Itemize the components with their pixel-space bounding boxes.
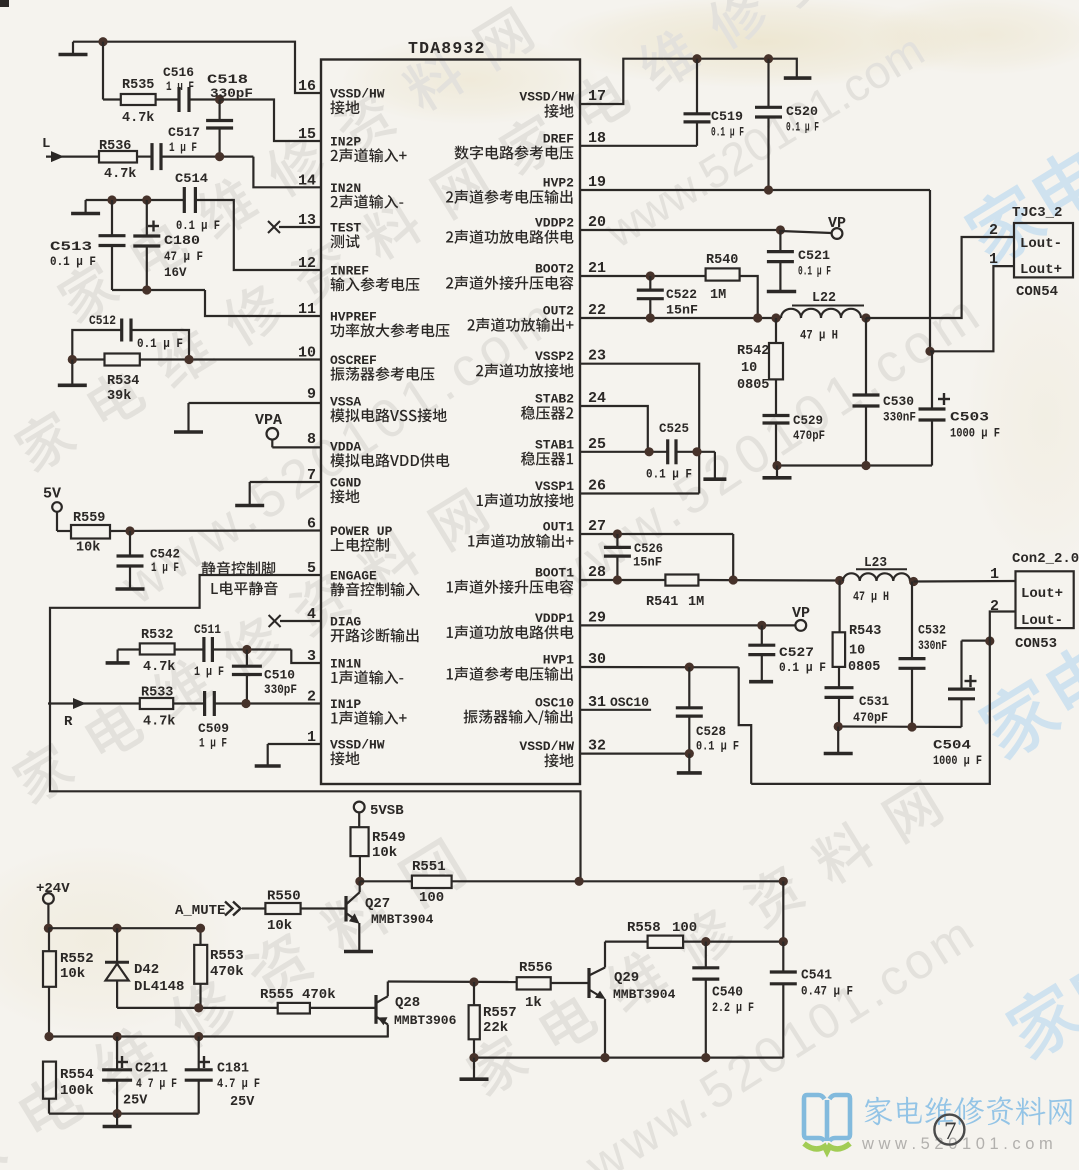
svg-text:25V: 25V: [230, 1095, 255, 1110]
svg-text:16V: 16V: [164, 266, 187, 280]
svg-text:1k: 1k: [525, 995, 542, 1011]
svg-text:HVPREF: HVPREF: [330, 310, 377, 325]
svg-text:C509: C509: [198, 721, 229, 736]
pin 14 (IN2N): [298, 172, 403, 208]
connector CON54: [989, 205, 1073, 300]
svg-text:C511: C511: [194, 622, 221, 637]
svg-text:VSSD/HW: VSSD/HW: [519, 739, 574, 754]
svg-text:15nF: 15nF: [633, 556, 662, 570]
svg-text:10: 10: [741, 361, 757, 376]
inductor L23: [843, 556, 910, 604]
wire net VSSD top-left to pin16: [73, 37, 321, 93]
pin4 DIAG no-connect X: [269, 615, 321, 627]
wire input cap to pin14: [161, 152, 321, 187]
svg-text:0805: 0805: [848, 660, 880, 675]
capacitor C519: [684, 59, 745, 146]
svg-text:47 μ H: 47 μ H: [800, 329, 838, 343]
svg-text:C512: C512: [89, 313, 116, 328]
pin 23 (VSSP2): [476, 348, 606, 378]
svg-text:2: 2: [989, 222, 998, 239]
ground C525: [703, 452, 726, 479]
pin 9 (VSSA): [307, 386, 447, 422]
svg-text:4.7k: 4.7k: [143, 660, 175, 675]
pin 32 (VSSD/HW): [519, 738, 606, 768]
capacitor C514: [175, 171, 220, 233]
svg-text:C522: C522: [666, 287, 697, 302]
svg-text:0.1 μ F: 0.1 μ F: [798, 265, 831, 279]
wire bottom of C513/C180 to pin11: [112, 285, 321, 316]
svg-text:C541: C541: [801, 969, 832, 984]
svg-text:L23: L23: [864, 556, 887, 571]
wire C509 to pin2: [214, 699, 321, 708]
pin 22 (OUT2): [467, 302, 606, 332]
capacitor C531: [825, 688, 890, 727]
svg-text:10k: 10k: [267, 918, 292, 934]
svg-text:10k: 10k: [76, 541, 100, 556]
svg-text:R558: R558: [627, 920, 661, 936]
svg-text:STAB2: STAB2: [535, 392, 574, 407]
svg-text:C527: C527: [779, 645, 814, 660]
svg-text:C526: C526: [634, 541, 663, 556]
svg-text:4 7 μ F: 4 7 μ F: [136, 1077, 177, 1091]
ground mid-left: [71, 200, 100, 214]
pin 11 (HVPREF): [298, 301, 449, 337]
svg-text:C513: C513: [50, 239, 92, 254]
pin 12 (INREF): [298, 255, 419, 291]
capacitor C527: [748, 625, 826, 680]
svg-text:15nF: 15nF: [666, 304, 698, 318]
wire C525 to ground: [676, 447, 715, 456]
resistor R558: [627, 920, 697, 948]
wire ground rail channel1: [834, 722, 962, 732]
svg-text:C504: C504: [933, 738, 971, 753]
pin 5 (ENGAGE): [307, 560, 420, 596]
svg-text:R540: R540: [706, 253, 738, 268]
resistor R534: [68, 354, 321, 405]
svg-text:100: 100: [419, 890, 444, 906]
svg-text:330pF: 330pF: [264, 683, 297, 697]
resistor R536: [99, 139, 137, 182]
capacitor C511: [194, 622, 224, 679]
svg-text:R542: R542: [737, 344, 769, 359]
svg-text:R553: R553: [210, 948, 244, 964]
svg-text:OUT2: OUT2: [543, 304, 574, 319]
svg-text:DL4148: DL4148: [134, 979, 184, 995]
svg-text:100: 100: [672, 920, 697, 936]
svg-text:R552: R552: [60, 951, 94, 967]
svg-text:1: 1: [990, 566, 999, 583]
svg-text:D42: D42: [134, 962, 159, 978]
svg-text:IN2P: IN2P: [330, 135, 361, 150]
svg-text:0.1 μ F: 0.1 μ F: [696, 740, 739, 754]
svg-text:C530: C530: [883, 394, 914, 409]
wire net STAB1 pin25: [580, 447, 668, 456]
svg-text:1 μ F: 1 μ F: [169, 141, 197, 155]
pin 15 (IN2P): [298, 126, 407, 162]
svg-text:C532: C532: [918, 623, 946, 638]
svg-text:C180: C180: [164, 233, 200, 248]
wire R558 to C541: [683, 937, 788, 946]
capacitor C211 electrolytic: [102, 1037, 177, 1114]
svg-text:1: 1: [989, 251, 998, 268]
svg-text:C516: C516: [163, 65, 194, 80]
capacitor C512: [72, 313, 189, 360]
svg-text:0.1 μ F: 0.1 μ F: [711, 126, 744, 140]
svg-text:R536: R536: [99, 139, 131, 154]
svg-text:L22: L22: [812, 291, 836, 306]
capacitor C532: [899, 582, 948, 728]
pin 27 (OUT1): [468, 518, 606, 548]
wire net OUT1: [580, 529, 733, 580]
pin 20 (VDDP2): [446, 214, 606, 244]
resistor R553: [194, 924, 243, 1008]
svg-text:27: 27: [588, 518, 606, 535]
capacitor series after R536: [152, 143, 161, 170]
wire Q28 emitter to R556/R557 node: [388, 977, 517, 986]
capacitor C542: [117, 531, 181, 577]
input terminal R: [48, 698, 140, 730]
pin 1 (VSSD/HW): [307, 729, 385, 765]
wire net D42/R553/R555: [117, 1003, 278, 1012]
svg-text:Lout-: Lout-: [1021, 613, 1063, 629]
svg-text:C542: C542: [150, 547, 180, 562]
input terminal L: [42, 136, 99, 162]
svg-text:0.1 μ F: 0.1 μ F: [646, 468, 692, 482]
svg-text:L: L: [42, 136, 50, 152]
wire net INREF top: [86, 195, 185, 204]
svg-text:A_MUTE: A_MUTE: [175, 903, 225, 919]
capacitor C529: [763, 413, 826, 466]
transistor Q27 MMBT3904: [346, 881, 434, 951]
svg-text:R554: R554: [60, 1067, 94, 1083]
pin 6 (POWER UP): [307, 516, 393, 552]
ground bottom-left: [103, 1114, 132, 1127]
capacitor C517: [168, 100, 233, 157]
terminal VP channel1: [792, 605, 810, 631]
svg-text:0.1 μ F: 0.1 μ F: [786, 121, 819, 135]
svg-text:C528: C528: [696, 724, 726, 739]
svg-text:4.7 μ F: 4.7 μ F: [217, 1077, 260, 1091]
svg-text:1M: 1M: [688, 595, 704, 610]
svg-text:2: 2: [990, 598, 999, 615]
wire R541 to L23: [698, 575, 844, 585]
svg-text:MMBT3906: MMBT3906: [394, 1013, 457, 1028]
svg-text:Lout-: Lout-: [1020, 236, 1062, 252]
svg-text:470pF: 470pF: [793, 429, 825, 443]
svg-text:1 μ F: 1 μ F: [199, 737, 227, 751]
capacitor C518 label: [207, 72, 253, 101]
wire R558 left: [605, 940, 648, 942]
capacitor C528: [676, 667, 739, 754]
wire net VSSP2 pin23: [580, 364, 699, 494]
capacitor C521: [767, 230, 831, 290]
pin13 TEST no-connect X: [268, 221, 321, 233]
resistor R549: [351, 813, 406, 862]
capacitor C540: [692, 942, 754, 1058]
wire bottom rail Q29 area: [469, 1053, 783, 1062]
capacitor C509: [198, 691, 229, 751]
capacitor C503 electrolytic: [919, 351, 1001, 465]
svg-text:17: 17: [588, 88, 606, 105]
wire net HVP2: [580, 185, 1014, 356]
svg-text:0.1 μ F: 0.1 μ F: [176, 219, 220, 233]
pin 31 (OSC10): [464, 694, 606, 725]
transistor Q29 MMBT3904: [589, 942, 676, 1058]
pin 7 (CGND): [307, 467, 361, 503]
svg-text:INREF: INREF: [330, 264, 369, 279]
ground under R534: [58, 360, 87, 386]
svg-text:0.1 μ F: 0.1 μ F: [50, 255, 96, 269]
wire net STAB2 pin24: [580, 406, 648, 452]
capacitor C522: [637, 276, 698, 318]
wire R532 to C511: [175, 648, 204, 650]
wire net OUT2: [580, 313, 781, 322]
svg-text:20: 20: [588, 214, 606, 231]
svg-text:TEST: TEST: [330, 221, 361, 236]
svg-text:C521: C521: [798, 248, 830, 263]
pin 13 (TEST): [298, 212, 361, 248]
terminal VP channel2: [828, 215, 846, 239]
svg-text:HVP1: HVP1: [543, 653, 574, 668]
svg-text:R535: R535: [122, 78, 154, 93]
label mute net: [202, 561, 278, 595]
pin 17 (VSSD/HW): [519, 88, 606, 118]
svg-text:32: 32: [588, 738, 606, 755]
svg-text:10: 10: [849, 644, 865, 659]
capacitor C180 electrolytic: [133, 200, 203, 290]
svg-text:R534: R534: [107, 374, 139, 389]
IC U1 TDA8932 body: [321, 60, 580, 785]
capacitor C520: [755, 59, 819, 190]
terminal 5V: [43, 486, 62, 512]
pin 8 (VDDA): [307, 431, 449, 467]
svg-text:C520: C520: [786, 104, 818, 119]
svg-text:POWER UP: POWER UP: [330, 524, 393, 539]
wire C519 to pin18: [580, 145, 697, 147]
svg-text:R549: R549: [372, 830, 406, 846]
wire node A to pin15: [220, 100, 321, 142]
pin 21 (BOOT2): [446, 260, 606, 290]
svg-text:VDDA: VDDA: [330, 440, 361, 455]
svg-text:1M: 1M: [710, 288, 726, 303]
wire R555 to Q28 base: [310, 1007, 375, 1009]
svg-text:R559: R559: [73, 511, 105, 526]
wire net VSSD pin32: [580, 749, 694, 758]
capacitor C525: [646, 421, 692, 482]
wire pin7 CGND: [250, 481, 321, 483]
svg-text:8: 8: [307, 431, 316, 448]
svg-text:0.1 μ F: 0.1 μ F: [779, 661, 826, 675]
inductor L22: [781, 291, 864, 343]
resistor R540: [706, 253, 740, 303]
svg-text:Lout+: Lout+: [1020, 262, 1062, 278]
pin 24 (STAB2): [521, 390, 606, 420]
input A_MUTE: [175, 902, 265, 920]
resistor R552: [43, 928, 94, 1036]
pin 18 (DREF): [454, 130, 606, 160]
svg-text:R555 470k: R555 470k: [260, 987, 336, 1003]
svg-text:R556: R556: [519, 960, 553, 976]
capacitor C526: [604, 534, 663, 580]
resistor R557: [469, 982, 517, 1058]
capacitor C510: [232, 650, 297, 704]
svg-text:23: 23: [588, 348, 606, 365]
capacitor C504 electrolytic: [933, 641, 990, 768]
svg-text:MMBT3904: MMBT3904: [371, 912, 434, 927]
svg-text:CGND: CGND: [330, 476, 361, 491]
svg-text:4.7k: 4.7k: [143, 715, 175, 730]
svg-text:VDDP2: VDDP2: [535, 216, 574, 231]
svg-text:VSSP1: VSSP1: [535, 479, 574, 494]
ground rail channel2: [763, 466, 792, 478]
resistor R532: [118, 628, 176, 675]
svg-text:C514: C514: [175, 171, 208, 186]
pin 26 (VSSP1): [477, 478, 606, 508]
wire CON53 pin2 net: [751, 612, 1015, 784]
svg-text:CON54: CON54: [1016, 284, 1058, 300]
svg-text:R541: R541: [646, 595, 678, 610]
resistor R554: [43, 1062, 94, 1114]
svg-text:1 μ F: 1 μ F: [166, 80, 194, 94]
capacitor C181 electrolytic: [185, 1037, 260, 1114]
ground under C542: [116, 577, 145, 589]
svg-text:470k: 470k: [210, 964, 244, 980]
svg-text:26: 26: [588, 478, 606, 495]
wire R556 to Q29 base: [551, 982, 588, 984]
ground C528: [677, 754, 702, 773]
svg-text:5VSB: 5VSB: [370, 803, 404, 819]
svg-text:w w w . 5 2 0 1 0 1 . c o m: w w w . 5 2 0 1 0 1 . c o m: [861, 1135, 1053, 1153]
resistor R551: [360, 859, 452, 906]
pin 30 (HVP1): [447, 651, 606, 681]
svg-text:C181: C181: [217, 1062, 249, 1077]
connector CON53: [990, 551, 1079, 652]
svg-text:CON53: CON53: [1015, 636, 1057, 652]
logo book icon (decorative): [804, 1095, 850, 1152]
svg-text:5V: 5V: [43, 486, 61, 503]
svg-text:470pF: 470pF: [853, 711, 888, 725]
svg-text:24: 24: [588, 390, 606, 407]
resistor R541: [646, 575, 704, 611]
svg-text:OUT1: OUT1: [543, 520, 574, 535]
svg-text:R543: R543: [849, 624, 881, 639]
svg-text:25V: 25V: [123, 1094, 148, 1109]
capacitor C516: [163, 65, 194, 112]
resistor R543: [833, 581, 882, 688]
svg-text:10k: 10k: [372, 845, 397, 861]
wire R535 to C516: [156, 98, 179, 100]
svg-text:C525: C525: [659, 421, 689, 436]
svg-text:100k: 100k: [60, 1083, 94, 1099]
pin 29 (VDDP1): [447, 609, 606, 639]
svg-text:47 μ F: 47 μ F: [164, 250, 203, 264]
ground top-left: [59, 42, 88, 55]
svg-text:28: 28: [588, 564, 606, 581]
svg-text:BOOT2: BOOT2: [535, 262, 574, 277]
svg-text:9: 9: [307, 386, 316, 403]
resistor R535: [121, 78, 156, 126]
diode D42 DL4148: [105, 928, 184, 1008]
pin 4 (DIAG): [307, 606, 419, 642]
svg-text:47 μ H: 47 μ H: [853, 590, 889, 604]
svg-text:C510: C510: [264, 668, 295, 683]
page number 7: [934, 1115, 964, 1145]
wire net VSSD right top: [580, 54, 797, 104]
wire ground rail channel2: [772, 461, 932, 470]
capacitor C530: [853, 318, 917, 466]
svg-text:Q29: Q29: [614, 970, 639, 986]
svg-text:DREF: DREF: [543, 131, 574, 146]
svg-text:R551: R551: [412, 859, 446, 875]
svg-text:VSSP2: VSSP2: [535, 349, 574, 364]
pin 10 (OSCREF): [298, 345, 434, 381]
ground under C521: [767, 290, 796, 294]
ground pin1: [255, 744, 321, 766]
svg-text:MMBT3904: MMBT3904: [613, 987, 676, 1002]
ground C527: [749, 680, 773, 684]
wire R535 left: [103, 42, 121, 100]
svg-text:4.7k: 4.7k: [122, 111, 154, 126]
svg-text:VP: VP: [828, 215, 846, 232]
wire net VDDP2: [580, 225, 832, 234]
wire R549 to Q27 collector node: [355, 856, 364, 886]
svg-text:10k: 10k: [60, 966, 85, 982]
terminal 5VSB: [354, 802, 404, 819]
pin 3 (IN1N): [307, 648, 403, 684]
svg-text:22: 22: [588, 302, 606, 319]
wire net VSSP1 pin26: [580, 492, 699, 494]
capacitor C513: [50, 200, 126, 290]
wire net ENGAGE loop: [50, 575, 581, 881]
wire R536 to input cap: [137, 156, 152, 158]
ground pin9: [174, 403, 203, 432]
wire C516 to node A: [189, 95, 224, 104]
wire L22 out to CON54 pin2: [861, 237, 1014, 323]
svg-text:Q27: Q27: [365, 896, 390, 912]
svg-text:C503: C503: [950, 410, 989, 425]
svg-text:R550: R550: [267, 889, 301, 905]
svg-text:330nF: 330nF: [918, 639, 947, 653]
logo url (decorative): [861, 1135, 1053, 1153]
svg-text:18: 18: [588, 130, 606, 147]
pin 28 (BOOT1): [447, 564, 606, 594]
capacitor C541: [770, 942, 853, 1058]
terminal +24V: [36, 881, 70, 904]
svg-text:R557: R557: [483, 1005, 517, 1021]
ground top-right: [784, 76, 812, 80]
svg-text:39k: 39k: [107, 389, 131, 404]
svg-text:0.1 μ F: 0.1 μ F: [137, 337, 183, 351]
wire C514 to pin12: [195, 200, 321, 270]
svg-text:R533: R533: [141, 686, 173, 701]
wire net BOOT1: [580, 575, 665, 584]
svg-text:C518: C518: [207, 72, 248, 87]
svg-text:TJC3_2: TJC3_2: [1012, 205, 1062, 221]
svg-text:IN1N: IN1N: [330, 657, 361, 672]
svg-text:0805: 0805: [737, 378, 769, 393]
svg-text:R532: R532: [141, 628, 173, 643]
svg-text:BOOT1: BOOT1: [535, 566, 574, 581]
svg-text:TDA8932: TDA8932: [408, 39, 486, 58]
svg-text:0.47 μ F: 0.47 μ F: [801, 985, 853, 999]
svg-text:21: 21: [588, 260, 606, 277]
svg-text:OSCREF: OSCREF: [330, 353, 377, 368]
pin31 OSC10 stub: [580, 695, 651, 710]
svg-text:VPA: VPA: [255, 412, 282, 429]
svg-text:30: 30: [588, 651, 606, 668]
terminal VPA: [255, 412, 321, 447]
resistor R550: [265, 889, 300, 935]
